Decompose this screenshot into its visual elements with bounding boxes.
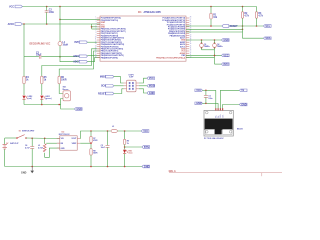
wire VCC drop upper [59,7,61,42]
resistor R6 100R [58,76,67,84]
svg-text:12: 12 [95,41,97,43]
port AVCC [8,23,23,26]
title block frame [169,170,282,176]
wire xtal caps common [202,49,215,51]
svg-text:RESET: RESET [98,92,107,95]
junction Q1 top [201,42,203,44]
junction switch b [25,137,27,139]
ferrite L3 [111,126,117,133]
wire R9 to HE1 [124,145,126,150]
svg-text:GND: GND [223,39,229,42]
svg-text:GND: GND [144,165,150,168]
IC U1 ATMEGA8 [95,11,192,61]
svg-text:470R: 470R [93,139,98,142]
junction R2 [242,25,244,27]
flag VCC out [141,130,149,133]
wire MISO to ICSP [114,77,124,83]
wire AVCC pin c [92,28,100,30]
svg-text:L3: L3 [112,126,114,128]
svg-text:VCC: VCC [149,77,154,80]
capacitor C4 4.7uF [25,138,34,166]
svg-text:OU-: OU- [222,114,224,118]
svg-text:10uH: 10uH [63,44,69,46]
svg-text:VCC: VCC [9,5,14,8]
resistor R5 1k [41,76,48,84]
wire ICSP GND [139,89,147,93]
connector ICSP1 [124,74,139,91]
wire GND pin [186,54,222,56]
svg-text:BUCK: BUCK [237,129,243,131]
svg-text:GND: GND [61,148,66,150]
svg-text:13: 13 [190,50,192,52]
capacitor C2 100n [45,7,55,25]
wire AVCC pin a [92,23,100,25]
flag MOSI [147,85,155,88]
svg-text:AVCC: AVCC [8,23,15,26]
svg-text:26: 26 [190,21,192,23]
wire to ADC7 flag [60,57,79,62]
wire 5V rail b [118,130,142,132]
wire VOUT up [80,131,91,139]
wire LED1 to gnd rail [41,99,43,104]
junction VCC rail / IC supply [59,6,61,8]
wire module GND [203,102,219,104]
junction Q2 top [214,42,216,44]
svg-text:25: 25 [190,23,192,25]
svg-text:16MHz: 16MHz [204,46,210,48]
resistor R4 1k [23,76,30,84]
flag VIN module [195,89,203,92]
regulator IC2 [57,132,80,151]
svg-text:100n: 100n [49,12,55,14]
inductor L2 [38,138,46,152]
junction buzzer gnd [58,104,60,106]
junction AVCC / branch down [23,23,25,25]
junction RESET / R1 [210,25,212,27]
wire to BTN flag [125,146,142,148]
svg-text:20: 20 [190,34,192,36]
wire RESET / SCL [186,25,264,27]
wire R2 net drop [242,26,244,32]
svg-text:ADC7: ADC7 [73,61,80,64]
svg-text:11: 11 [95,39,97,41]
capacitor C6 100n [204,90,213,103]
svg-text:17: 17 [190,41,192,43]
svg-text:VCC: VCC [223,54,228,57]
ground symbol [21,167,34,175]
junction gnd / R8 [90,166,92,168]
svg-text:560R: 560R [93,153,98,155]
svg-text:19: 19 [190,37,192,39]
svg-text:PB6(XTAL1/TOSC1)/PB7(XTAL2): PB6(XTAL1/TOSC1)/PB7(XTAL2) [156,56,185,59]
wire to INT flag [215,63,222,65]
flag BTN [142,146,150,149]
junction VCC rail / R1 [210,6,212,8]
svg-text:(green): (green) [45,98,51,100]
svg-text:100n: 100n [208,98,212,100]
junction BTN branch [124,146,126,148]
junction rail / C4 [31,138,33,140]
wire module pin1 drop [215,90,217,110]
wire LED gnd rail [24,104,61,106]
svg-text:MISO: MISO [100,75,106,78]
svg-text:4.7k: 4.7k [258,14,263,17]
svg-text:(red): (red) [28,98,32,100]
wire AVCC pin drop [91,24,93,29]
resonator Q2 [213,40,223,50]
wire switch to regulator [26,137,60,140]
wire battery to switch [5,137,17,139]
wire module pin4 drop [223,105,240,110]
wire buzzer to gnd [61,99,63,105]
svg-text:11: 11 [190,54,192,56]
svg-text:4.7uH: 4.7uH [38,146,44,149]
flag RESET [222,25,238,28]
flag ADC6 [73,55,87,58]
junction AVCC pins [91,26,93,28]
svg-text:16: 16 [95,50,97,52]
flag MISO [100,75,114,78]
wire xtal gnd drop [214,50,216,64]
wire AREF right [41,56,78,58]
junction LED1 gnd [41,104,43,106]
junction gnd / C4 [31,166,33,168]
wire VREF to divider [80,142,91,144]
svg-text:GND: GND [196,102,202,105]
wire XTAL top [186,39,222,41]
svg-text:16MHz: 16MHz [217,46,223,48]
capacitor C5 10uF [101,131,110,167]
svg-text:1k: 1k [127,143,129,145]
junction XTAL / Q2 [214,39,216,41]
flag VCC icsp [147,77,155,80]
svg-text:28: 28 [190,17,192,19]
svg-text:16: 16 [190,43,192,45]
wire divider mid [90,143,92,149]
svg-text:14: 14 [190,48,192,50]
wire SDA [186,32,264,38]
wire AVCC [23,23,92,25]
svg-text:SDA: SDA [265,37,270,40]
junction 5V / divider [90,130,92,132]
svg-text:17: 17 [95,52,97,54]
flag SCK [101,85,114,88]
wire LED2 to gnd rail [23,99,25,104]
svg-text:SWITCH-SPST: SWITCH-SPST [22,130,35,132]
junction 5V / LED chain [124,130,126,132]
junction Q2 bottom [214,47,216,49]
svg-text:ADC6: ADC6 [73,55,80,58]
wire IC PB2 to R6 [59,51,100,76]
svg-text:22: 22 [190,30,192,32]
flag INT0 [74,41,87,44]
LED HE1 [123,150,133,155]
junction C6 bottom [205,103,207,105]
svg-text:RESET: RESET [230,25,239,28]
junction at AREF wire [59,56,61,58]
svg-text:INT0: INT0 [74,41,80,44]
flag VCC right [222,54,230,57]
svg-text:DC 75-05 0.8A 0.5V/A DC: DC 75-05 0.8A 0.5V/A DC [204,137,224,140]
wire ground rail [5,166,142,168]
svg-text:10: 10 [95,37,97,39]
wire AVCC branch down [23,24,25,57]
wire R6 to buzzer [59,84,63,94]
flag GND icsp [147,92,155,95]
wire SCK to ICSP [114,85,124,87]
junction XTAL / Q1 [201,39,203,41]
module U2 buck converter [204,108,243,140]
flag INT [222,63,230,66]
wire ADC6 to IC [87,54,100,56]
junction VCC rail / C2 [46,6,48,8]
wire AREF left [24,56,39,58]
svg-text:SCL: SCL [265,25,270,28]
svg-text:GND: GND [21,171,27,174]
wire ADC7 to IC [87,58,100,62]
junction PC4 [242,29,244,31]
switch S1 [17,130,35,138]
svg-text:S1: S1 [19,130,21,132]
wire R4 top [23,57,25,76]
svg-text:27: 27 [190,19,192,21]
svg-text:GND: GND [76,108,82,111]
inductor L1 (VCC filter) [58,42,68,47]
junction Q1 bottom [201,47,203,49]
flag SDA [264,37,272,40]
flag 5V module [239,89,247,92]
junction gnd / C5 [107,166,109,168]
svg-text:GRL A: GRL A [169,170,176,173]
svg-text:DECOUPLING VCC: DECOUPLING VCC [30,44,51,46]
resistor R9 1k [123,131,129,145]
svg-text:13: 13 [95,43,97,45]
svg-text:18: 18 [95,54,97,56]
junction switch a [16,137,18,139]
capacitor C3 10uF inline [36,52,42,58]
svg-text:15: 15 [95,48,97,50]
wire ICSP VCC [139,78,147,83]
flag SCL [264,25,272,28]
svg-text:14: 14 [95,45,97,47]
svg-text:5V: 5V [241,89,244,92]
wire R5 to LED1 [41,84,43,95]
wire VCC top rail [23,6,257,8]
flag GND rail [142,165,150,168]
junction gnd / HE1 [124,166,126,168]
resistor R1 10k [210,7,218,27]
junction AVCC / C2 [46,23,48,25]
svg-text:19: 19 [95,56,97,58]
svg-text:PB4(MISO/PCINT4): PB4(MISO/PCINT4) [101,56,118,59]
battery B1 9V [3,138,20,167]
wire R4 to LED2 [23,84,25,95]
wire 5V rail a [91,130,111,132]
flag GND2 module [239,103,247,106]
svg-text:BAT-CLIP: BAT-CLIP [10,142,19,145]
wire ICSP MOSI [139,85,147,87]
LED2 red [22,96,32,101]
flag GND module [195,102,203,105]
wire L2 bottom to reg pin3 [45,148,60,157]
junction 5V / C5 [107,130,109,132]
wire module pin2 drop [217,103,219,110]
resistor R2 4.7k [241,7,249,27]
flag ADC7 [73,60,87,63]
resistor R3 4.7k [255,7,263,27]
resistor R7 470R [90,131,98,143]
svg-text:GND: GND [149,92,155,95]
wire to IC VCC pin [60,18,100,20]
junction VCC drop / IC pin wire [59,19,61,21]
wire R8 to gnd [90,155,92,166]
svg-text:GND: GND [241,103,247,106]
svg-text:SCK: SCK [101,85,106,88]
LED1 green [40,96,52,101]
wire RESET to ICSP [114,89,124,94]
svg-text:INT#: INT# [223,63,229,66]
junction R3 [256,25,258,27]
svg-text:10uF: 10uF [36,55,42,57]
svg-text:4.7k: 4.7k [244,14,249,17]
wire PB7 [186,57,215,59]
wire INT0 to IC [87,41,100,43]
wire VCC drop lower [59,46,61,57]
flag RESET icsp [98,92,114,95]
svg-text:3mm: 3mm [128,153,133,155]
svg-text:VCC: VCC [143,130,148,133]
junction rail / L2 [44,138,46,140]
resistor R8 560R [90,149,98,155]
wire PC4 [186,28,243,30]
port VCC [9,5,22,8]
svg-text:100R: 100R [61,80,67,82]
junction xtal gnd [214,55,216,57]
svg-text:15: 15 [190,45,192,47]
wire module pin3 drop [220,90,239,110]
svg-text:ATMEGA8-16PU: ATMEGA8-16PU [144,11,162,14]
svg-text:12: 12 [190,52,192,54]
svg-text:VCC: VCC [196,89,201,92]
junction divider mid [90,142,92,144]
resonator Q1 [200,40,210,50]
buzzer SG1 [63,87,71,101]
junction C6 top [205,90,207,92]
wire gnd jog [61,105,75,110]
svg-text:21: 21 [190,32,192,34]
svg-text:MOSI: MOSI [149,85,155,88]
wire L2 top to reg pin2 [46,142,60,144]
flag GND leds [75,108,83,111]
wire IC PB1 to R5 [42,49,100,76]
junction VCC rail / R2 [242,6,244,8]
wire module VIN [203,89,216,91]
wire AVCC pin b [92,26,100,28]
flag GND xtal [222,39,230,42]
wire HE1 to gnd [124,154,126,167]
svg-text:BTN: BTN [144,146,149,149]
